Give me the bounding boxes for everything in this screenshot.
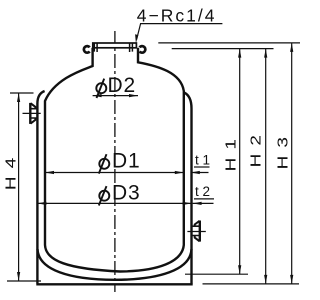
leader underline for 4-Rc1/4 — [137, 24, 223, 40]
label phiD1 — [99, 159, 109, 169]
right nozzle centerline — [187, 231, 205, 233]
right nozzle pipe — [192, 226, 199, 235]
jacket right wall — [184, 93, 192, 284]
svg-text:D2: D2 — [108, 74, 136, 97]
dimension t2 — [193, 202, 214, 204]
dimension t1 — [191, 172, 209, 174]
leader arrowhead — [135, 34, 138, 43]
right nozzle top ear — [195, 221, 200, 227]
left nozzle flange face — [29, 103, 31, 124]
skirt bottom edge — [36, 283, 192, 285]
flange bolt ticks right — [130, 43, 133, 52]
svg-text:H 3: H 3 — [275, 136, 292, 170]
svg-text:H 4: H 4 — [2, 156, 19, 190]
left nozzle centerline — [23, 112, 41, 114]
dimension H2 line — [265, 49, 267, 284]
dimension phiD3 line — [37, 202, 191, 204]
right nozzle bottom ear — [195, 235, 200, 241]
jacket left wall — [37, 91, 44, 284]
label phiD2 — [96, 83, 106, 93]
ground baseline right — [203, 283, 300, 285]
flange clamp ear left — [84, 46, 90, 53]
H4 bottom extension line — [7, 280, 41, 282]
dimension H4 line — [18, 93, 20, 281]
svg-text:4−Rc1/4: 4−Rc1/4 — [137, 6, 217, 26]
dimension H3 line — [291, 43, 293, 284]
dimension H1 line — [239, 49, 241, 275]
H4 top extension line — [10, 92, 34, 94]
svg-text:H 2: H 2 — [248, 134, 265, 168]
top extension line A (flange top) — [158, 42, 300, 44]
H1 bottom extension line — [185, 273, 248, 275]
svg-text:H 1: H 1 — [222, 138, 239, 172]
right nozzle flange face — [199, 221, 201, 242]
dimension phiD1 line — [45, 172, 184, 174]
left nozzle bottom ear — [31, 118, 36, 124]
t1 underline — [194, 166, 210, 168]
flange bolt ticks left — [94, 43, 97, 52]
top extension line B (flange base) — [172, 48, 274, 50]
svg-text:t2: t2 — [195, 184, 214, 199]
svg-text:D3: D3 — [112, 181, 140, 204]
top flange plate — [93, 43, 137, 48]
left nozzle top ear — [31, 103, 36, 109]
vessel inner shell (neck, shoulders, walls, dished bottom) — [45, 48, 184, 272]
svg-text:D1: D1 — [112, 150, 140, 173]
t2 underline — [194, 198, 214, 200]
label phiD3 — [99, 191, 109, 201]
flange clamp ear right — [140, 46, 146, 53]
svg-text:t1: t1 — [195, 152, 214, 167]
left nozzle pipe — [31, 109, 38, 118]
dimension phiD2 line — [93, 95, 138, 97]
jacket dished bottom — [38, 249, 192, 280]
vertical centerline — [114, 31, 116, 292]
